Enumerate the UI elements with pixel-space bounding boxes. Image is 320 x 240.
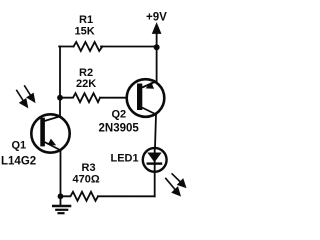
svg-text:L14G2: L14G2: [1, 155, 36, 167]
wire Q2 collector to LED anode: [155, 115, 156, 149]
resistor R3: [60, 192, 98, 201]
light arrows out of LED1: [165, 173, 185, 195]
ground: [52, 196, 71, 213]
LED LED1: [143, 148, 167, 172]
node junction at +9V rail: [154, 44, 160, 50]
wire top rail right segment: [101, 45, 157, 47]
svg-text:+9V: +9V: [146, 12, 167, 24]
wire LED cathode to bottom rail: [154, 172, 156, 196]
svg-text:15K: 15K: [75, 25, 95, 37]
supply arrow +9V: [153, 25, 160, 48]
node junction at ground: [58, 193, 64, 199]
wire left vertical upper (R2 tap to top rail): [59, 46, 61, 97]
node junction at R2 tap: [57, 95, 63, 101]
resistor R1: [74, 42, 103, 51]
svg-text:470Ω: 470Ω: [72, 173, 99, 185]
svg-text:LED1: LED1: [110, 153, 138, 165]
wire R2 to Q2 base: [100, 97, 127, 99]
transistor Q2 (PNP 2N3905): [127, 79, 165, 117]
resistor R2: [60, 93, 100, 102]
wire left vertical to Q1 collector: [59, 98, 61, 117]
light arrows into Q1: [16, 85, 34, 107]
transistor Q1 (NPN phototransistor L14G2): [31, 114, 69, 152]
svg-text:Q2: Q2: [111, 109, 126, 121]
wire right vertical to Q2 emitter: [156, 47, 158, 82]
svg-text:Q1: Q1: [11, 139, 26, 151]
wire top rail left segment: [59, 45, 73, 47]
wire bottom rail: [98, 195, 155, 197]
wire Q1 emitter down to ground junction: [59, 150, 61, 196]
svg-text:R1: R1: [79, 14, 93, 26]
svg-text:R3: R3: [81, 162, 95, 174]
svg-text:2N3905: 2N3905: [98, 122, 139, 134]
svg-text:22K: 22K: [76, 78, 96, 90]
